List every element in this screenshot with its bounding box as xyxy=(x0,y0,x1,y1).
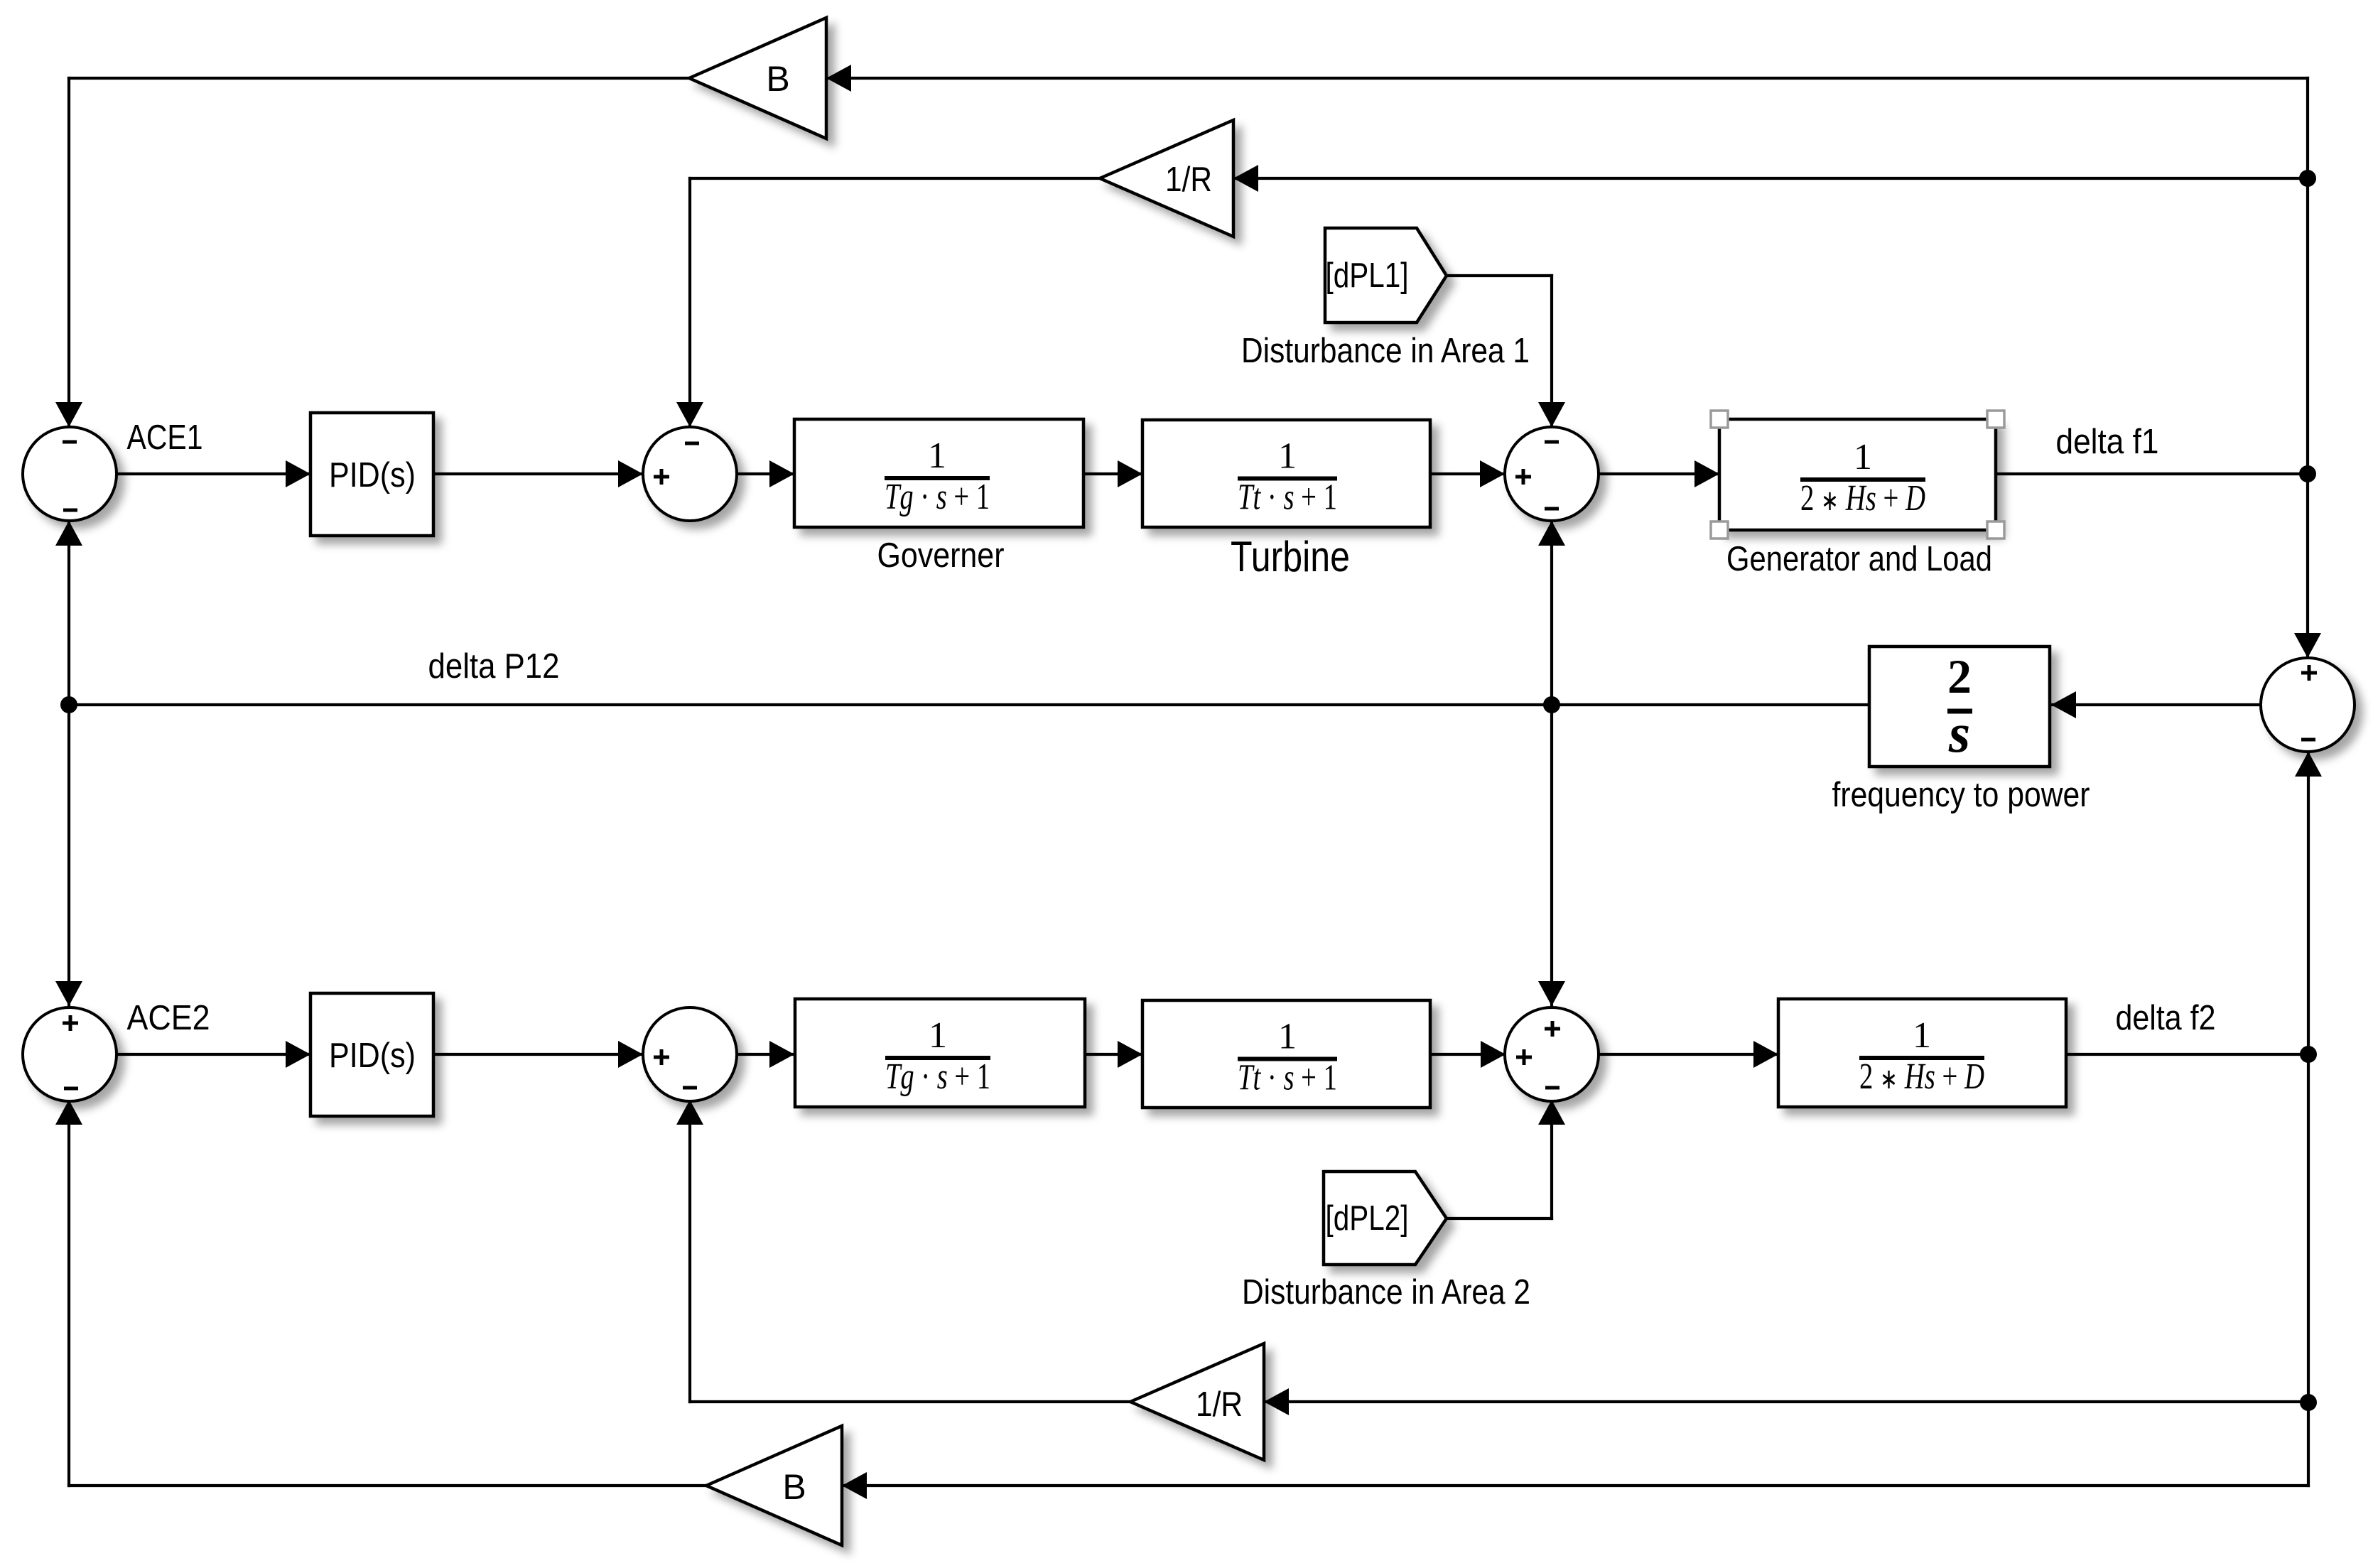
block Governor1 1/(Tg·s+1) xyxy=(794,419,1083,527)
svg-text:2 ∗ Hs + D: 2 ∗ Hs + D xyxy=(1800,478,1925,519)
svg-text:Disturbance in Area 1: Disturbance in Area 1 xyxy=(1241,332,1530,370)
gain 1/R1 (droop, row 1) xyxy=(1100,120,1233,237)
wire: sum S1 output to PID1 xyxy=(117,472,310,475)
svg-text:2 ∗ Hs + D: 2 ∗ Hs + D xyxy=(1859,1056,1984,1097)
block Turbine2 1/(Tt·s+1) xyxy=(1142,1000,1430,1108)
svg-text:1: 1 xyxy=(928,436,946,476)
wire: gain B2 output left then up into sum S5 bottom xyxy=(69,1484,706,1487)
arrowhead into 2/s block xyxy=(2051,691,2076,718)
svg-text:PID(s): PID(s) xyxy=(329,456,416,494)
arrowhead into sum S5 bottom xyxy=(55,1100,82,1125)
wire: PID2 output to sum S6 xyxy=(433,1053,643,1056)
node: junction 1/R2 tap on right rail xyxy=(2300,1394,2317,1411)
wire: Turbine1 output to sum S3 xyxy=(1430,472,1505,475)
svg-text:Tt · s + 1: Tt · s + 1 xyxy=(1238,477,1337,518)
tag From [dPL2] xyxy=(1324,1172,1447,1265)
wire: right vertical delta-f2 rail from sum S4 bottom down to bottom corner xyxy=(2307,752,2310,1486)
sum S4 (tie-line summer, right) xyxy=(2261,658,2355,752)
wire: middle tap down into sum S7 top xyxy=(1550,705,1553,1006)
wire: Governor2 output to Turbine2 xyxy=(1085,1053,1142,1056)
wire: gain 1/R1 output left then down into sum S2 top xyxy=(690,177,1100,180)
arrowhead into sum S1 bottom xyxy=(55,521,82,546)
svg-text:2: 2 xyxy=(1947,649,1972,703)
arrowhead into Generator1 xyxy=(1694,460,1719,487)
arrowhead into PID2 xyxy=(286,1041,310,1068)
svg-text:delta f2: delta f2 xyxy=(2116,999,2216,1037)
svg-text:Turbine: Turbine xyxy=(1231,533,1350,580)
svg-text:frequency to power: frequency to power xyxy=(1832,776,2090,814)
arrowhead into Turbine1 xyxy=(1118,460,1142,487)
node: junction delta f1 on right rail xyxy=(2299,465,2316,482)
wire: Turbine2 output to sum S7 xyxy=(1430,1053,1506,1056)
arrowhead into sum S7 top xyxy=(1538,981,1565,1006)
arrowhead into sum S7 bottom xyxy=(1538,1100,1565,1125)
svg-text:delta f1: delta f1 xyxy=(2056,423,2159,461)
wire: middle tap up into sum S3 bottom xyxy=(1550,521,1553,705)
arrowhead into sum S3 bottom xyxy=(1538,521,1565,546)
block PID2 PID(s) controller area 2 xyxy=(310,993,433,1116)
svg-text:ACE2: ACE2 xyxy=(127,999,210,1037)
arrowhead into sum S1 top xyxy=(55,402,82,427)
arrowhead into Governor1 xyxy=(769,460,794,487)
sum S7 (after Turbine2) xyxy=(1505,1007,1599,1101)
wire: gain 1/R2 output left then up into sum S6 bottom xyxy=(690,1400,1130,1403)
svg-text:1: 1 xyxy=(929,1015,947,1056)
arrowhead into sum S6 left xyxy=(618,1041,643,1068)
block Turbine1 1/(Tt·s+1) xyxy=(1142,420,1430,527)
svg-text:1: 1 xyxy=(1854,437,1872,477)
arrowhead into sum S4 bottom xyxy=(2295,752,2322,777)
arrowhead into sum S2 left xyxy=(618,460,643,487)
svg-text:[dPL2]: [dPL2] xyxy=(1326,1199,1409,1238)
arrowhead into PID1 xyxy=(286,460,310,487)
wire: sum S6 output to Governor2 xyxy=(737,1053,794,1056)
arrowhead into sum S7 left xyxy=(1481,1041,1506,1068)
node: junction 1/R1 tap on right rail xyxy=(2299,170,2316,187)
svg-text:Generator and Load: Generator and Load xyxy=(1726,540,1992,578)
svg-text:1: 1 xyxy=(1278,436,1297,477)
wire: 1/R1 feedback horizontal from right rail to gain 1/R1 xyxy=(1233,177,2308,180)
wire: sum S4 output left into 2/s block xyxy=(2051,703,2261,706)
wire: right vertical delta-f1 rail from top corner down to sum S4 top xyxy=(2306,78,2309,658)
arrowhead into sum S3 left xyxy=(1480,460,1505,487)
block PID1 PID(s) controller area 1 xyxy=(310,413,433,536)
gain B1 (frequency bias, top) xyxy=(689,18,826,139)
svg-text:1/R: 1/R xyxy=(1196,1385,1243,1424)
sum S5 (ACE2 summer) xyxy=(23,1007,117,1101)
arrowhead into sum S6 bottom xyxy=(676,1100,703,1125)
arrowhead into Turbine2 xyxy=(1118,1041,1142,1068)
wire: B2 feedback bottom horizontal from bottom corner to gain B2 xyxy=(842,1484,2308,1487)
wire: left rail down into sum S5 top xyxy=(67,705,70,1006)
wire: from tag dPL1 right then down into sum S3 top xyxy=(1447,274,1552,277)
sum S2 (after PID1) xyxy=(643,427,737,521)
block Generator2 1/(2*Hs+D) xyxy=(1778,999,2066,1107)
wire: sum S5 output to PID2 xyxy=(117,1053,310,1056)
gain 1/R2 (droop, row 2) xyxy=(1130,1343,1264,1460)
wire: PID1 output to sum S2 xyxy=(433,472,643,475)
wire: from tag dPL2 right then up into sum S7 bottom xyxy=(1447,1217,1552,1220)
svg-text:PID(s): PID(s) xyxy=(329,1037,416,1075)
sum S1 (ACE1 summer) xyxy=(23,427,117,521)
arrowhead into Generator2 xyxy=(1753,1041,1778,1068)
block Generator1 1/(2*Hs+D) (selected) xyxy=(1719,419,1996,530)
svg-text:s: s xyxy=(1948,702,1970,764)
wire: sum S7 output to Generator2 xyxy=(1599,1053,1778,1056)
arrowhead into sum S4 top xyxy=(2294,633,2321,658)
wire: Generator2 output delta f2 to right rail xyxy=(2066,1053,2308,1056)
node: junction delta f2 on right rail xyxy=(2300,1046,2317,1063)
arrowhead into gain B1 xyxy=(826,65,851,92)
svg-text:Governer: Governer xyxy=(877,536,1005,575)
wire: B1 feedback top horizontal from right vertical to gain B1 xyxy=(826,77,2308,80)
arrowhead into sum S3 top xyxy=(1538,402,1565,427)
arrowhead into Governor2 xyxy=(769,1041,794,1068)
svg-text:Disturbance in Area 2: Disturbance in Area 2 xyxy=(1242,1273,1530,1312)
tag From [dPL1] xyxy=(1325,228,1447,323)
selection handles on Generator1 xyxy=(1711,411,1728,428)
arrowhead into gain 1/R2 xyxy=(1264,1388,1289,1415)
block Governor2 1/(Tg·s+1) xyxy=(795,999,1085,1107)
node: junction delta P12 left rail xyxy=(60,696,77,713)
svg-text:Tg · s + 1: Tg · s + 1 xyxy=(885,477,990,517)
svg-text:Tt · s + 1: Tt · s + 1 xyxy=(1238,1058,1337,1098)
wire: sum S2 output to Governor1 xyxy=(737,472,794,475)
svg-text:1/R: 1/R xyxy=(1165,161,1212,199)
arrowhead into sum S2 top xyxy=(676,402,703,427)
arrowhead into sum S5 top xyxy=(55,981,82,1006)
svg-text:1: 1 xyxy=(1278,1017,1297,1057)
wire: left rail up into sum S1 bottom xyxy=(67,521,70,705)
wire: gain B1 output to top-left corner and down into sum S1 top xyxy=(69,77,689,80)
wire: sum S3 output to Generator1 xyxy=(1599,472,1719,475)
svg-text:delta P12: delta P12 xyxy=(428,647,560,686)
svg-text:ACE1: ACE1 xyxy=(127,418,203,457)
svg-text:Tg · s + 1: Tg · s + 1 xyxy=(885,1056,990,1097)
arrowhead into gain B2 xyxy=(842,1472,867,1499)
wire: delta P12 long horizontal from 2/s output to left rail xyxy=(69,703,1869,706)
svg-text:B: B xyxy=(782,1467,806,1507)
svg-text:[dPL1]: [dPL1] xyxy=(1326,256,1409,295)
wire: Governor1 output to Turbine1 xyxy=(1083,472,1142,475)
gain B2 (frequency bias, bottom) xyxy=(706,1426,842,1545)
sum S6 (after PID2) xyxy=(643,1007,737,1101)
block frequency-to-power integrator 2/s xyxy=(1869,647,2050,767)
wire: 1/R2 feedback horizontal from right rail to gain 1/R2 xyxy=(1264,1400,2308,1403)
node: junction delta P12 middle tap xyxy=(1543,696,1560,713)
wire: Generator1 output delta f1 to right rail xyxy=(1996,472,2308,475)
svg-text:1: 1 xyxy=(1913,1015,1931,1056)
svg-text:B: B xyxy=(766,59,789,99)
sum S3 (after Turbine1) xyxy=(1505,427,1599,521)
arrowhead into gain 1/R1 xyxy=(1233,165,1258,192)
